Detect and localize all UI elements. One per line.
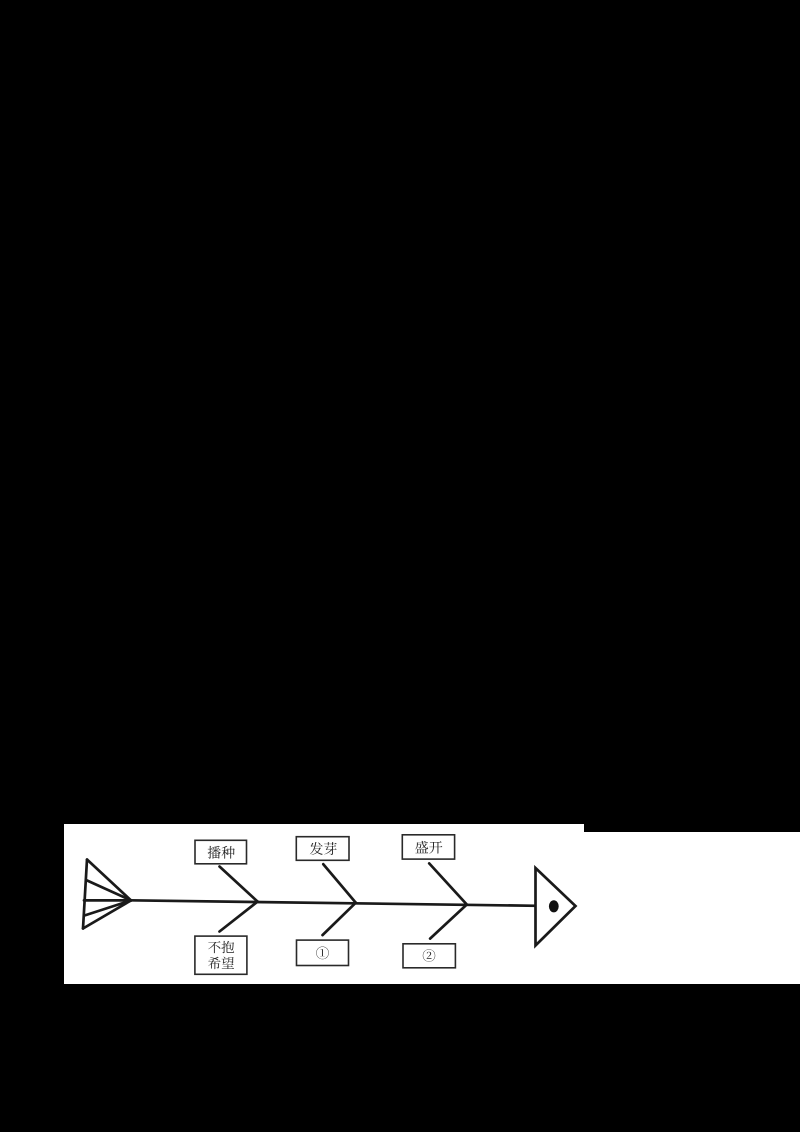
white panel (left part) [64,824,584,984]
label box 不抱希望 [195,936,247,974]
fish tail fin [83,860,131,929]
rib 1 upper (to 播种) [220,867,258,902]
tail fan line middle [84,899,131,902]
tail bottom edge [83,900,131,928]
rib 2 lower (to ①) [323,903,356,935]
label box 播种 [195,840,247,864]
rib 1 lower (to 不抱希望) [220,902,258,932]
label box ② [403,944,455,968]
tail top edge [87,860,131,901]
tail left edge [83,860,87,929]
tail fan line lower [85,900,132,915]
fish eye [549,900,559,912]
fish head [536,868,576,946]
label box ① [297,940,349,965]
label box 发芽 [296,837,349,861]
rib 3 upper (to 盛开) [429,863,467,904]
spine [129,900,537,906]
rib 3 lower (to ②) [430,905,467,939]
label box 盛开 [402,835,454,859]
white panel (right part) [584,832,800,984]
tail fan line upper [86,880,131,900]
rib 2 upper (to 发芽) [323,864,356,903]
